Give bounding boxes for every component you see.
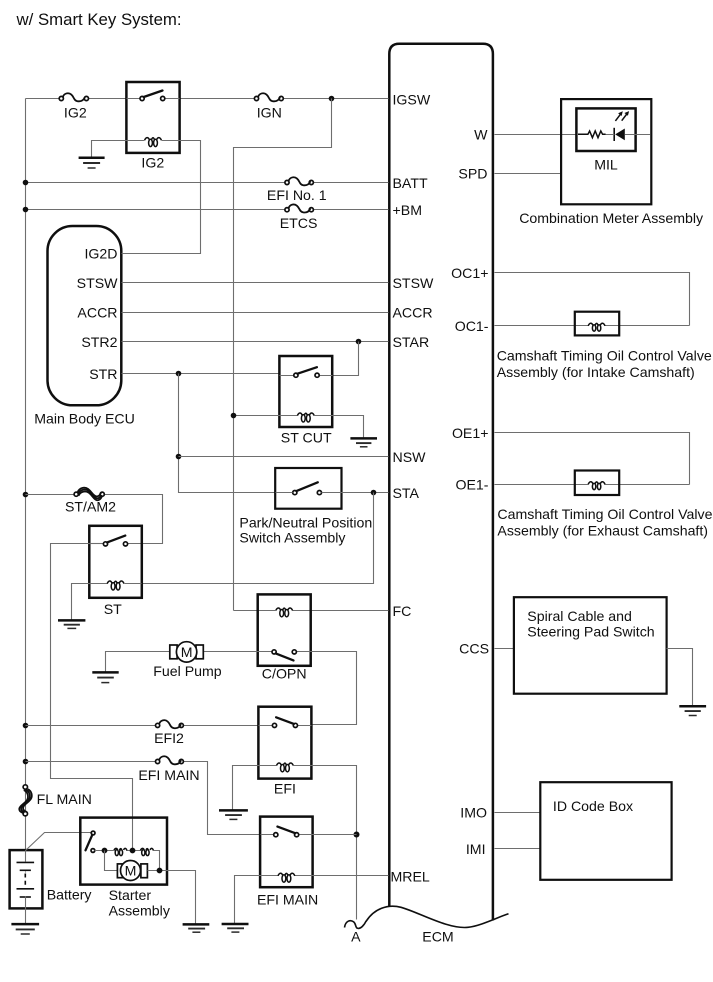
fuse ETCS xyxy=(285,204,314,212)
svg-text:EFI2: EFI2 xyxy=(154,730,184,746)
svg-text:STA: STA xyxy=(393,485,420,501)
resistor (MIL) xyxy=(578,131,606,138)
ECM bottom wave break xyxy=(366,906,509,927)
wire IMO line xyxy=(495,812,541,814)
relay IG2 coil xyxy=(127,138,180,147)
wire W line xyxy=(495,134,577,136)
svg-text:OE1-: OE1- xyxy=(455,477,488,493)
starter switch xyxy=(86,831,96,852)
svg-text:Spiral Cable and: Spiral Cable and xyxy=(527,608,632,624)
node EFI MAIN switch junction xyxy=(354,832,360,838)
svg-text:STR2: STR2 xyxy=(81,334,117,350)
svg-text:STSW: STSW xyxy=(393,275,435,291)
wire EFI MAIN coil left to ground xyxy=(235,876,261,924)
wire FC line through C/OPN coil xyxy=(234,610,389,612)
svg-text:EFI No. 1: EFI No. 1 xyxy=(267,187,327,203)
wire battery to starter switch xyxy=(26,833,91,851)
wire ST switch left down to starter solenoid xyxy=(51,544,133,851)
svg-text:IG2D: IG2D xyxy=(84,246,117,262)
svg-text:STAR: STAR xyxy=(393,334,430,350)
relay ST CUT box xyxy=(279,356,332,427)
node STR junction xyxy=(176,371,182,377)
wire IG2D to IG2 relay coil xyxy=(122,141,201,254)
svg-text:ETCS: ETCS xyxy=(280,215,318,231)
relay ST box xyxy=(89,526,142,598)
svg-text:Assembly (for Exhaust Camshaft: Assembly (for Exhaust Camshaft) xyxy=(497,523,708,539)
svg-text:Park/Neutral Position: Park/Neutral Position xyxy=(239,515,372,531)
svg-text:Assembly (for Intake Camshaft): Assembly (for Intake Camshaft) xyxy=(497,364,695,380)
svg-text:M: M xyxy=(181,644,193,660)
node bus ST/AM2 junction xyxy=(23,492,29,498)
wire ST/AM2 line xyxy=(26,495,163,544)
svg-text:EFI: EFI xyxy=(274,780,296,796)
wire left supply bus vertical xyxy=(25,99,27,851)
wire ACCR line xyxy=(122,312,389,314)
ground (IG2 relay) xyxy=(79,158,105,168)
relay EFI MAIN box xyxy=(260,817,313,888)
wire ST CUT coil left to IGN branch xyxy=(234,415,280,417)
svg-text:Assembly: Assembly xyxy=(109,903,171,919)
svg-text:Steering Pad Switch: Steering Pad Switch xyxy=(527,624,654,640)
node bus-+BM junction xyxy=(23,207,29,213)
motor fuel pump xyxy=(106,642,258,672)
wire IMI line xyxy=(495,848,541,850)
svg-text:ID Code Box: ID Code Box xyxy=(553,798,633,814)
wire EFI2 line xyxy=(26,725,259,727)
wire ST CUT coil right to ground xyxy=(333,416,364,438)
wire C/OPN switch to EFI relay switch xyxy=(311,652,357,725)
fuse EFI MAIN xyxy=(156,756,184,764)
node junction on IGSW line xyxy=(329,96,335,102)
svg-text:ECM: ECM xyxy=(422,929,453,945)
relay EFI switch xyxy=(259,717,312,727)
node starter motor junction xyxy=(157,868,163,874)
svg-text:Battery: Battery xyxy=(47,887,93,903)
relay IG2 switch xyxy=(127,91,180,101)
wire starter motor right to ground xyxy=(148,871,196,924)
relay C/OPN coil xyxy=(276,608,293,617)
svg-text:IMO: IMO xyxy=(460,805,487,821)
wire EFI coil right down to A-branch xyxy=(312,766,357,920)
ECM box outline U1 xyxy=(389,44,493,921)
relay EFI MAIN coil xyxy=(261,873,313,882)
wire STA branch down to ST relay coil xyxy=(142,493,374,584)
svg-text:STR: STR xyxy=(89,366,117,382)
svg-text:A: A xyxy=(351,929,361,945)
svg-text:IG2: IG2 xyxy=(141,154,164,170)
wire IGN branch down to FC feed xyxy=(234,99,332,611)
svg-text:NSW: NSW xyxy=(393,449,427,465)
ground (battery) xyxy=(11,924,39,934)
svg-text:IGN: IGN xyxy=(257,104,282,120)
fuse EFI No. 1 xyxy=(285,177,314,185)
solenoid box (intake OCV) xyxy=(575,312,619,336)
node starter solenoid junction left xyxy=(102,848,108,854)
combination meter assembly box xyxy=(561,99,651,204)
node ST CUT coil junction xyxy=(231,413,237,419)
svg-text:Main Body ECU: Main Body ECU xyxy=(34,411,135,427)
node bus-BATT junction xyxy=(23,180,29,186)
motor starter M xyxy=(117,861,147,881)
svg-text:W: W xyxy=(474,126,488,142)
fuse EFI2 xyxy=(156,720,184,728)
wire IGSW feed horizontal xyxy=(26,98,389,100)
svg-text:Starter: Starter xyxy=(109,887,152,903)
ground (EFI MAIN coil) xyxy=(222,924,249,932)
relay ST CUT switch xyxy=(280,367,333,377)
ground (ST relay) xyxy=(58,620,85,628)
svg-text:ST: ST xyxy=(104,601,122,617)
battery B1 xyxy=(10,850,43,923)
svg-text:Combination Meter Assembly: Combination Meter Assembly xyxy=(519,210,704,226)
relay ST switch xyxy=(90,536,128,546)
relay IG2 box xyxy=(126,82,179,153)
node starter solenoid junction mid xyxy=(130,848,136,854)
solenoid coil (intake OCV) xyxy=(588,323,605,331)
svg-text:BATT: BATT xyxy=(393,175,428,191)
svg-text:ACCR: ACCR xyxy=(393,304,433,320)
svg-text:IMI: IMI xyxy=(466,841,486,857)
svg-text:MREL: MREL xyxy=(391,868,430,884)
svg-text:C/OPN: C/OPN xyxy=(262,665,307,681)
wire IG2 coil to ground xyxy=(92,141,127,157)
wire OC1+ line xyxy=(495,273,690,326)
svg-text:Fuel Pump: Fuel Pump xyxy=(153,663,222,679)
ID code box xyxy=(540,782,671,880)
starter solenoid coils xyxy=(95,848,160,870)
relay C/OPN switch xyxy=(258,650,311,661)
svg-text:ACCR: ACCR xyxy=(77,304,117,320)
wire spiral cable to ground xyxy=(667,649,693,706)
wire EFI coil left to ground xyxy=(233,766,259,810)
svg-text:MIL: MIL xyxy=(594,156,618,172)
wire STSW line xyxy=(122,282,389,284)
relay EFI coil xyxy=(259,763,312,772)
starter assembly box xyxy=(80,818,167,885)
ground (starter) xyxy=(183,924,210,932)
ground (EFI relay) xyxy=(219,810,248,819)
spiral cable box xyxy=(514,597,667,694)
wire A-branch break squiggle xyxy=(345,921,367,929)
node STAR junction xyxy=(356,339,362,345)
node bus EFI MAIN junction xyxy=(23,759,29,765)
solenoid box (exhaust OCV) xyxy=(575,471,619,496)
svg-text:STSW: STSW xyxy=(77,275,119,291)
wire starter motor left branch xyxy=(105,851,118,871)
relay EFI MAIN switch xyxy=(261,827,357,837)
svg-text:M: M xyxy=(125,862,137,878)
wire EFI MAIN fuse line to EFI MAIN relay xyxy=(26,762,261,835)
svg-text:EFI MAIN: EFI MAIN xyxy=(257,891,318,907)
svg-text:IG2: IG2 xyxy=(64,104,87,120)
ground (ST CUT) xyxy=(350,438,377,446)
svg-text:EFI MAIN: EFI MAIN xyxy=(138,767,199,783)
wire STAR branch to ST CUT switch xyxy=(333,342,359,376)
wire NSW line xyxy=(179,456,389,458)
wire STR line to ST CUT switch xyxy=(122,373,280,375)
wire +BM line xyxy=(26,209,389,211)
MIL box xyxy=(576,108,635,151)
svg-text:FC: FC xyxy=(393,603,412,619)
relay EFI box xyxy=(258,707,311,779)
wire OE1- line xyxy=(495,484,690,486)
relay C/OPN box xyxy=(258,594,311,665)
wire MREL line xyxy=(313,875,389,877)
svg-text:Switch Assembly: Switch Assembly xyxy=(239,530,346,546)
fusible link ST/AM2 xyxy=(74,488,104,501)
ground (spiral cable) xyxy=(679,706,706,715)
svg-text:SPD: SPD xyxy=(458,166,487,182)
svg-text:ST CUT: ST CUT xyxy=(281,430,332,446)
node NSW junction xyxy=(176,454,182,460)
svg-text:CCS: CCS xyxy=(459,640,489,656)
wire SPD line xyxy=(495,173,562,175)
svg-text:Camshaft Timing Oil Control Va: Camshaft Timing Oil Control Valve xyxy=(497,347,712,363)
ground (fuel pump) xyxy=(92,672,118,682)
fuse IGN xyxy=(254,93,283,101)
wire BATT line xyxy=(26,182,389,184)
wire P/N switch internal stubs xyxy=(276,492,342,494)
Park/Neutral switch contacts xyxy=(293,482,322,494)
switch assembly Park/Neutral box xyxy=(275,468,341,509)
solenoid coil (exhaust OCV) xyxy=(588,482,605,490)
svg-text:ST/AM2: ST/AM2 xyxy=(65,498,116,514)
svg-text:OE1+: OE1+ xyxy=(452,425,489,441)
svg-text:+BM: +BM xyxy=(393,202,422,218)
wire STR2 to STAR line xyxy=(122,341,389,343)
wire ST coil left to ground xyxy=(72,584,90,620)
node bus EFI2 junction xyxy=(23,723,29,729)
svg-text:w/ Smart Key System:: w/ Smart Key System: xyxy=(16,10,182,29)
wire OE1+ line xyxy=(495,433,690,485)
svg-text:FL MAIN: FL MAIN xyxy=(37,791,92,807)
wire STR branch down to NSW and P/N switch xyxy=(179,374,276,493)
wire OC1- line xyxy=(495,325,690,327)
node STA junction xyxy=(371,490,377,496)
svg-text:Camshaft Timing Oil Control Va: Camshaft Timing Oil Control Valve xyxy=(497,506,712,522)
svg-text:IGSW: IGSW xyxy=(393,92,431,108)
wire STA line xyxy=(342,492,389,494)
Main Body ECU box xyxy=(48,226,122,405)
svg-text:OC1-: OC1- xyxy=(455,318,489,334)
wire CCS line xyxy=(495,648,514,650)
relay ST CUT coil xyxy=(280,413,333,422)
fuse IG2 xyxy=(59,93,88,101)
relay ST coil xyxy=(90,581,142,590)
LED lamp MIL xyxy=(606,111,651,141)
fusible link FL MAIN xyxy=(19,785,32,816)
svg-text:OC1+: OC1+ xyxy=(451,265,488,281)
